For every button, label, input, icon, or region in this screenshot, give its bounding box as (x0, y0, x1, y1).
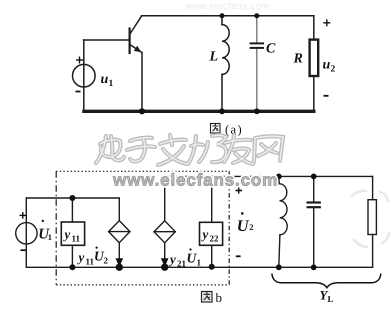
svg-text:C: C (266, 42, 276, 57)
svg-text:R: R (293, 52, 303, 67)
svg-text:y: y (168, 252, 176, 267)
svg-text:www.elecfans.com: www.elecfans.com (184, 1, 269, 12)
svg-text:2: 2 (104, 256, 109, 266)
svg-text:y: y (77, 250, 85, 265)
svg-text:2: 2 (331, 65, 336, 75)
svg-text:L: L (209, 50, 219, 65)
svg-text:L: L (328, 294, 334, 304)
svg-text:2: 2 (249, 222, 253, 232)
svg-text:): ) (238, 123, 242, 137)
svg-text:www.elecfans.com: www.elecfans.com (112, 171, 278, 190)
svg-text:(: ( (225, 123, 229, 137)
svg-text:y: y (63, 227, 71, 242)
svg-text:1: 1 (48, 232, 52, 242)
svg-text:21: 21 (177, 259, 187, 269)
svg-text:u: u (101, 72, 109, 87)
svg-text:1: 1 (109, 79, 114, 89)
svg-text:b: b (216, 290, 223, 305)
svg-text:1: 1 (197, 258, 202, 268)
svg-text:y: y (201, 227, 209, 242)
svg-text:11: 11 (72, 234, 81, 244)
svg-text:U: U (237, 216, 250, 235)
svg-text:u: u (323, 58, 331, 73)
svg-text:22: 22 (210, 234, 220, 244)
